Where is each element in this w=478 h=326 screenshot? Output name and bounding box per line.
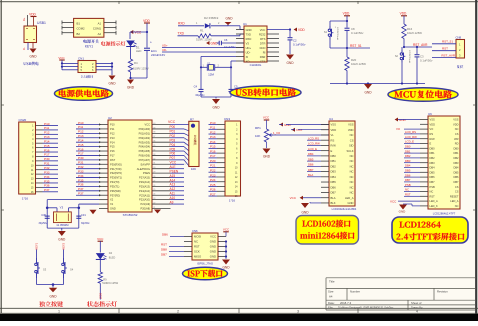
- svg-text:P35(T1): P35(T1): [110, 184, 120, 188]
- wire CN6 gnd rail: [225, 240, 227, 259]
- svg-text:LCD_RS: LCD_RS: [405, 130, 416, 134]
- svg-text:D-: D-: [22, 47, 26, 50]
- svg-text:DCD: DCD: [260, 46, 266, 50]
- svg-text:RP1: RP1: [255, 126, 261, 130]
- svg-text:ALE/PROG: ALE/PROG: [137, 167, 150, 171]
- svg-text:P17: P17: [78, 152, 84, 156]
- net DB8 (CN6): [161, 248, 184, 252]
- svg-text:DB3: DB3: [405, 159, 411, 163]
- svg-text:DB5: DB5: [331, 180, 337, 184]
- resistor R9 510R: [98, 272, 119, 285]
- power VCC (D4): [97, 237, 104, 253]
- svg-text:P00(AD0): P00(AD0): [139, 127, 151, 131]
- svg-text:P06(AD6): P06(AD6): [139, 154, 151, 158]
- svg-text:Title: Title: [329, 279, 335, 283]
- svg-text:P35: P35: [44, 179, 50, 183]
- svg-text:4: 4: [185, 139, 186, 141]
- wire S1 bottom to RST_51: [330, 40, 370, 50]
- svg-text:PSEN: PSEN: [170, 169, 179, 173]
- svg-text:3: 3: [297, 309, 299, 313]
- svg-text:P27(A15): P27(A15): [139, 176, 150, 180]
- svg-text:8LED: 8LED: [109, 256, 116, 260]
- net KEY1 label (S3): [35, 242, 39, 258]
- svg-text:STC89C52: STC89C52: [123, 213, 138, 217]
- ground GND (U6): [399, 204, 420, 213]
- svg-text:A15: A15: [170, 174, 176, 178]
- svg-text:P10: P10: [110, 123, 115, 127]
- IC U1 CH340G: [243, 22, 267, 67]
- block label LCD1602 interface: [296, 216, 359, 245]
- svg-text:NC: NC: [350, 175, 354, 179]
- svg-text:LCD_E: LCD_E: [308, 147, 317, 151]
- net RST (CN6): [161, 243, 184, 247]
- svg-text:DB5: DB5: [308, 157, 314, 161]
- svg-text:30p/50v: 30p/50v: [195, 93, 205, 97]
- svg-text:P17: P17: [44, 153, 50, 157]
- svg-text:CN8: CN8: [456, 36, 462, 40]
- svg-text:2: 2: [177, 309, 179, 313]
- svg-text:P16: P16: [44, 148, 50, 152]
- svg-text:DB6: DB6: [308, 163, 314, 167]
- svg-text:GND: GND: [222, 266, 230, 270]
- svg-text:CH340G: CH340G: [250, 63, 262, 67]
- net RST_51 (CN8): [432, 40, 456, 44]
- power VCC (RP1): [263, 116, 270, 129]
- wire buttons gnd rail: [37, 278, 64, 286]
- svg-text:1*16: 1*16: [22, 197, 29, 201]
- svg-text:LCD1602&mini12864: LCD1602&mini12864: [332, 207, 357, 211]
- svg-text:33: 33: [153, 154, 155, 156]
- svg-text:VCC: VCC: [210, 235, 216, 239]
- svg-text:LED_A: LED_A: [450, 199, 458, 203]
- svg-text:PSEN: PSEN: [143, 171, 150, 175]
- svg-text:Revision: Revision: [437, 290, 448, 294]
- svg-text:RST: RST: [405, 193, 411, 197]
- svg-text:DB4: DB4: [331, 175, 337, 179]
- svg-text:GND: GND: [210, 240, 216, 244]
- svg-text:P01(AD1): P01(AD1): [139, 131, 151, 135]
- svg-text:P30: P30: [44, 157, 50, 161]
- svg-text:12VDC50mA: 12VDC50mA: [336, 27, 339, 40]
- svg-text:CN3: CN3: [224, 117, 230, 121]
- svg-text:11.0592M: 11.0592M: [56, 223, 69, 227]
- svg-text:P10: P10: [44, 122, 50, 126]
- svg-text:DB7: DB7: [453, 180, 459, 184]
- svg-text:VCC: VCC: [290, 196, 297, 200]
- svg-text:DB1: DB1: [453, 151, 459, 155]
- LED D1: [126, 40, 141, 52]
- svg-text:220uF/16V: 220uF/16V: [151, 53, 165, 57]
- svg-text:DB2: DB2: [453, 156, 459, 160]
- svg-text:P20(A8): P20(A8): [140, 207, 150, 211]
- net DB7 (CN6): [161, 253, 184, 257]
- svg-text:DB6: DB6: [405, 173, 411, 177]
- svg-text:NC: NC: [455, 127, 459, 131]
- svg-text:GND: GND: [246, 28, 252, 32]
- svg-text:P13: P13: [110, 136, 115, 140]
- svg-text:P36: P36: [44, 184, 50, 188]
- svg-text:CN6: CN6: [192, 229, 198, 233]
- svg-text:GND: GND: [29, 55, 37, 59]
- svg-text:R/W: R/W: [430, 137, 436, 141]
- svg-text:SCLK: SCLK: [346, 149, 353, 153]
- resistor R4 510R: [128, 59, 149, 72]
- svg-text:VCC: VCC: [390, 199, 397, 203]
- svg-text:P22: P22: [210, 169, 216, 173]
- svg-text:LED_K: LED_K: [430, 204, 438, 208]
- svg-text:P14: P14: [44, 139, 50, 143]
- svg-text:25: 25: [153, 189, 155, 191]
- svg-text:P15: P15: [78, 143, 84, 147]
- svg-text:P37: P37: [78, 187, 84, 191]
- net UD-: [162, 48, 244, 52]
- svg-text:CS: CS: [455, 190, 459, 194]
- pins CN3 left stubs: [217, 125, 225, 197]
- svg-text:A13: A13: [170, 183, 176, 187]
- svg-text:P36: P36: [78, 183, 84, 187]
- wire reset gnd rail: [330, 71, 425, 85]
- svg-text:DB3: DB3: [453, 161, 459, 165]
- label USB supply: [23, 62, 38, 66]
- svg-text:VDD: VDD: [29, 12, 36, 16]
- svg-text:P30: P30: [78, 156, 84, 160]
- net UD+: [162, 43, 244, 47]
- svg-text:PSB: PSB: [405, 183, 411, 187]
- svg-text:MISO: MISO: [194, 255, 202, 259]
- wire VCC rail: [130, 31, 148, 44]
- pins KEY1 right: [104, 21, 116, 35]
- svg-text:Drawn By:: Drawn By:: [411, 306, 423, 310]
- wire CN1 right to GND: [96, 62, 113, 75]
- svg-text:RS: RS: [430, 132, 434, 136]
- svg-text:P13: P13: [210, 135, 216, 139]
- svg-text:P37(RD): P37(RD): [110, 193, 120, 197]
- svg-text:P16: P16: [210, 149, 216, 153]
- svg-text:P12: P12: [44, 131, 50, 135]
- svg-text:DB1: DB1: [405, 149, 411, 153]
- svg-text:U2: U2: [108, 116, 112, 120]
- svg-text:C6: C6: [224, 38, 228, 42]
- svg-text:P32: P32: [44, 166, 50, 170]
- pins U1 left stubs: [236, 30, 244, 62]
- net RXD: [178, 21, 204, 25]
- svg-text:P11: P11: [110, 127, 115, 131]
- resistor R16 10k: [402, 24, 422, 39]
- svg-text:GND: GND: [210, 255, 216, 259]
- svg-text:RXD: RXD: [246, 37, 252, 41]
- svg-text:P31: P31: [44, 162, 50, 166]
- ground GND (LED rail): [127, 80, 135, 90]
- svg-text:8: 8: [185, 159, 186, 161]
- svg-text:UD-: UD-: [162, 48, 167, 52]
- svg-text:NC: NC: [455, 204, 459, 208]
- svg-text:GND: GND: [210, 245, 216, 249]
- connector CN20: [19, 118, 36, 201]
- svg-text:510R/.125W: 510R/.125W: [133, 67, 149, 71]
- svg-text:0.1uF/50v: 0.1uF/50v: [224, 45, 236, 49]
- svg-text:A11: A11: [170, 192, 176, 196]
- svg-text:BLK: BLK: [331, 201, 336, 205]
- svg-text:DB6: DB6: [453, 175, 459, 179]
- svg-text:EA/VPP: EA/VPP: [141, 162, 151, 166]
- svg-text:DB2: DB2: [331, 164, 337, 168]
- label power switch KEY1: [83, 39, 98, 48]
- svg-text:GND: GND: [108, 82, 116, 86]
- svg-text:DB1: DB1: [430, 151, 436, 155]
- svg-text:P34(T0): P34(T0): [110, 180, 120, 184]
- svg-text:P24: P24: [210, 178, 216, 182]
- svg-text:P20: P20: [210, 159, 216, 163]
- svg-text:32: 32: [153, 158, 155, 160]
- svg-text:ISP56_JTAG: ISP56_JTAG: [197, 262, 213, 266]
- svg-text:P02: P02: [170, 134, 176, 138]
- svg-text:RST_51: RST_51: [350, 44, 362, 48]
- power VDD (LED rail): [143, 19, 150, 32]
- svg-text:NC: NC: [350, 164, 354, 168]
- svg-text:D+: D+: [22, 17, 26, 21]
- svg-text:P33: P33: [78, 169, 84, 173]
- svg-text:P11: P11: [78, 125, 84, 129]
- svg-text:C4: C4: [194, 85, 198, 89]
- svg-text:KEY1: KEY1: [35, 242, 39, 249]
- svg-text:NC: NC: [350, 191, 354, 195]
- svg-text:Sheet of: Sheet of: [411, 301, 422, 305]
- svg-text:29: 29: [153, 172, 155, 174]
- power VCC (U6 backlight): [390, 199, 420, 203]
- svg-text:P10: P10: [78, 121, 84, 125]
- pins CN20 right stubs: [36, 126, 43, 192]
- svg-text:P24(A12): P24(A12): [139, 189, 150, 193]
- svg-text:P04: P04: [170, 143, 176, 147]
- power VCC (U4 backlight): [290, 196, 321, 200]
- svg-text:31: 31: [153, 163, 155, 165]
- wire diode to GND port: [211, 22, 244, 30]
- ground GND (crystal): [212, 99, 220, 110]
- svg-text:D:\Altium Designer6\..\DXP MSP: D:\Altium Designer6\..\DXP MSP430 51.Sch…: [338, 306, 394, 310]
- svg-text:GND: GND: [284, 123, 292, 127]
- net RST_51: [350, 44, 362, 48]
- svg-text:DB0: DB0: [453, 146, 459, 150]
- svg-text:VCC: VCC: [170, 161, 177, 165]
- svg-text:DB7: DB7: [161, 253, 167, 257]
- node GND port (U6 row1): [395, 118, 420, 122]
- switch KEY1: [74, 18, 104, 37]
- wire U1 VCC to VDD: [267, 28, 291, 37]
- power VCC (CN1): [58, 56, 65, 70]
- svg-text:R1: R1: [200, 29, 204, 33]
- capacitor C6 V3: [217, 38, 245, 49]
- svg-text:P14: P14: [210, 140, 216, 144]
- svg-text:Date:: Date:: [328, 301, 335, 305]
- svg-text:P17: P17: [210, 154, 216, 158]
- capacitor C3 0.1uF: [415, 46, 434, 84]
- svg-text:GND: GND: [286, 61, 294, 65]
- svg-text:1_VO: 1_VO: [273, 131, 281, 135]
- svg-text:VSS: VSS: [430, 118, 435, 122]
- svg-text:10K: 10K: [255, 134, 260, 138]
- svg-text:7: 7: [185, 154, 186, 156]
- svg-text:21: 21: [153, 207, 155, 209]
- svg-text:40: 40: [153, 123, 155, 125]
- power VCC (U2/R7): [168, 120, 189, 125]
- svg-text:BLA: BLA: [331, 196, 336, 200]
- ground GND port (diode): [225, 17, 234, 26]
- wire S1 top rail: [330, 20, 348, 26]
- svg-text:P17: P17: [110, 154, 115, 158]
- svg-text:P35: P35: [78, 178, 84, 182]
- svg-text:DB7: DB7: [430, 180, 436, 184]
- svg-text:VDD: VDD: [430, 122, 436, 126]
- ground GND (crystal Y3): [58, 228, 66, 242]
- node VCC port (LCD row2): [291, 128, 329, 132]
- svg-text:X2: X2: [110, 198, 114, 202]
- svg-text:E: E: [331, 149, 333, 153]
- power VDD (USB1): [29, 12, 36, 26]
- svg-text:RST: RST: [161, 243, 167, 247]
- svg-text:VCC: VCC: [296, 128, 303, 132]
- svg-text:RESET: RESET: [450, 194, 459, 198]
- svg-text:VO: VO: [430, 127, 434, 131]
- svg-text:DB1: DB1: [331, 159, 337, 163]
- svg-text:VDD: VDD: [453, 122, 459, 126]
- svg-text:10K: 10K: [191, 167, 196, 171]
- svg-text:23: 23: [153, 198, 155, 200]
- svg-text:NC: NC: [350, 170, 354, 174]
- wire crystal loop: [200, 57, 236, 99]
- svg-text:LED_A: LED_A: [345, 196, 354, 200]
- svg-text:P25(A13): P25(A13): [139, 184, 150, 188]
- svg-text:VCC: VCC: [263, 116, 270, 120]
- svg-text:VL: VL: [331, 133, 335, 137]
- svg-text:0.1uF/50v: 0.1uF/50v: [351, 31, 364, 35]
- svg-text:LED: LED: [136, 49, 141, 53]
- svg-text:P16: P16: [78, 147, 84, 151]
- net D4 label: [99, 283, 103, 299]
- svg-text:P00: P00: [170, 125, 176, 129]
- svg-text:LCD_RW: LCD_RW: [405, 135, 417, 139]
- crystal Y1 12M: [201, 61, 231, 76]
- svg-text:DB4: DB4: [308, 152, 314, 156]
- capacitor C5 30p: [229, 85, 244, 98]
- wire S2 to rail: [401, 63, 403, 84]
- svg-text:UD-: UD-: [246, 51, 251, 55]
- wire USB1 pin D+: [22, 15, 28, 26]
- svg-text:36: 36: [153, 141, 155, 143]
- svg-text:COM1: COM1: [93, 27, 102, 31]
- svg-text:SCK: SCK: [194, 250, 200, 254]
- wire bundle U4 data nets: [307, 136, 321, 177]
- svg-text:LCD_RS: LCD_RS: [308, 136, 319, 140]
- wire D4 to R9: [99, 260, 101, 273]
- net RST (CN8): [432, 47, 456, 51]
- svg-text:MOSI: MOSI: [194, 235, 201, 239]
- svg-text:RI: RI: [263, 51, 266, 55]
- svg-text:DB4: DB4: [430, 166, 436, 170]
- svg-text:GND: GND: [263, 155, 271, 159]
- wire R4 to GND: [129, 72, 147, 79]
- svg-text:10k/0.125W: 10k/0.125W: [351, 62, 366, 66]
- svg-text:E: E: [430, 142, 432, 146]
- svg-text:R/W: R/W: [331, 144, 337, 148]
- svg-text:Number: Number: [350, 290, 360, 294]
- label power indicator: [101, 41, 125, 46]
- svg-text:DB8: DB8: [161, 248, 167, 252]
- svg-text:P16: P16: [110, 149, 115, 153]
- ground GND (CN6): [222, 260, 230, 270]
- svg-text:X1: X1: [110, 202, 114, 206]
- svg-text:GND: GND: [110, 207, 116, 211]
- svg-text:P13: P13: [44, 135, 50, 139]
- svg-text:WR: WR: [454, 137, 458, 141]
- svg-text:P01: P01: [170, 130, 176, 134]
- svg-text:CS: CS: [455, 185, 459, 189]
- wire LED to R4: [130, 46, 132, 59]
- svg-text:0.1uF/50v: 0.1uF/50v: [420, 59, 433, 63]
- svg-text:RTS: RTS: [260, 37, 266, 41]
- svg-text:VSS: VSS: [331, 123, 337, 127]
- svg-text:GND: GND: [210, 250, 216, 254]
- svg-text:VCC: VCC: [260, 28, 266, 32]
- svg-text:P23: P23: [210, 173, 216, 177]
- svg-text:RST: RST: [430, 194, 436, 198]
- diode D2 IN5819: [196, 16, 220, 29]
- svg-text:P21: P21: [210, 164, 216, 168]
- LED D4: [96, 251, 116, 259]
- svg-text:DB4: DB4: [405, 164, 411, 168]
- svg-text:P12: P12: [110, 131, 115, 135]
- svg-text:VCC: VCC: [145, 123, 151, 127]
- connector USB1: [24, 21, 46, 43]
- svg-text:35: 35: [153, 145, 155, 147]
- svg-text:A12: A12: [170, 187, 176, 191]
- wire bundle U6 data nets: [404, 130, 420, 196]
- svg-text:DB3: DB3: [331, 170, 337, 174]
- node GND port (LCD row1): [279, 123, 329, 127]
- svg-text:VCC: VCC: [168, 120, 176, 124]
- capacitor C8 0.1uF: [345, 26, 365, 48]
- svg-text:DB6: DB6: [331, 185, 337, 189]
- svg-text:LCD12864&2.4TFT: LCD12864&2.4TFT: [433, 212, 456, 216]
- svg-text:P05: P05: [170, 147, 176, 151]
- svg-text:B2: B2: [77, 32, 81, 36]
- node VCC port: [130, 30, 142, 34]
- power VDD (reset S1): [343, 12, 350, 22]
- svg-text:P10: P10: [210, 121, 216, 125]
- resistor R1 510R: [196, 29, 244, 42]
- svg-text:LED0: LED0: [99, 292, 103, 299]
- svg-text:DB2: DB2: [430, 156, 436, 160]
- svg-text:DSR: DSR: [260, 55, 266, 59]
- wire bundle CN20 nets: [43, 122, 59, 192]
- svg-text:A2: A2: [98, 32, 102, 36]
- svg-text:P03(AD3): P03(AD3): [139, 140, 151, 144]
- ground GND (CN1): [108, 76, 116, 86]
- net DB6 (CN6): [162, 233, 184, 237]
- svg-text:P25: P25: [210, 183, 216, 187]
- svg-text:DB7: DB7: [308, 168, 314, 172]
- svg-text:P11: P11: [210, 126, 216, 130]
- capacitor C2 0.1uF: [288, 38, 307, 54]
- svg-text:VDD: VDD: [143, 19, 150, 23]
- connector CN8: [456, 36, 465, 69]
- svg-text:P33: P33: [44, 170, 50, 174]
- svg-text:VSS: VSS: [453, 118, 458, 122]
- net VO (U6): [396, 127, 420, 131]
- svg-text:A1: A1: [98, 21, 102, 25]
- svg-text:VCC: VCC: [97, 237, 104, 241]
- svg-text:S4: S4: [70, 268, 74, 272]
- net KEY2 label (S4): [62, 242, 66, 258]
